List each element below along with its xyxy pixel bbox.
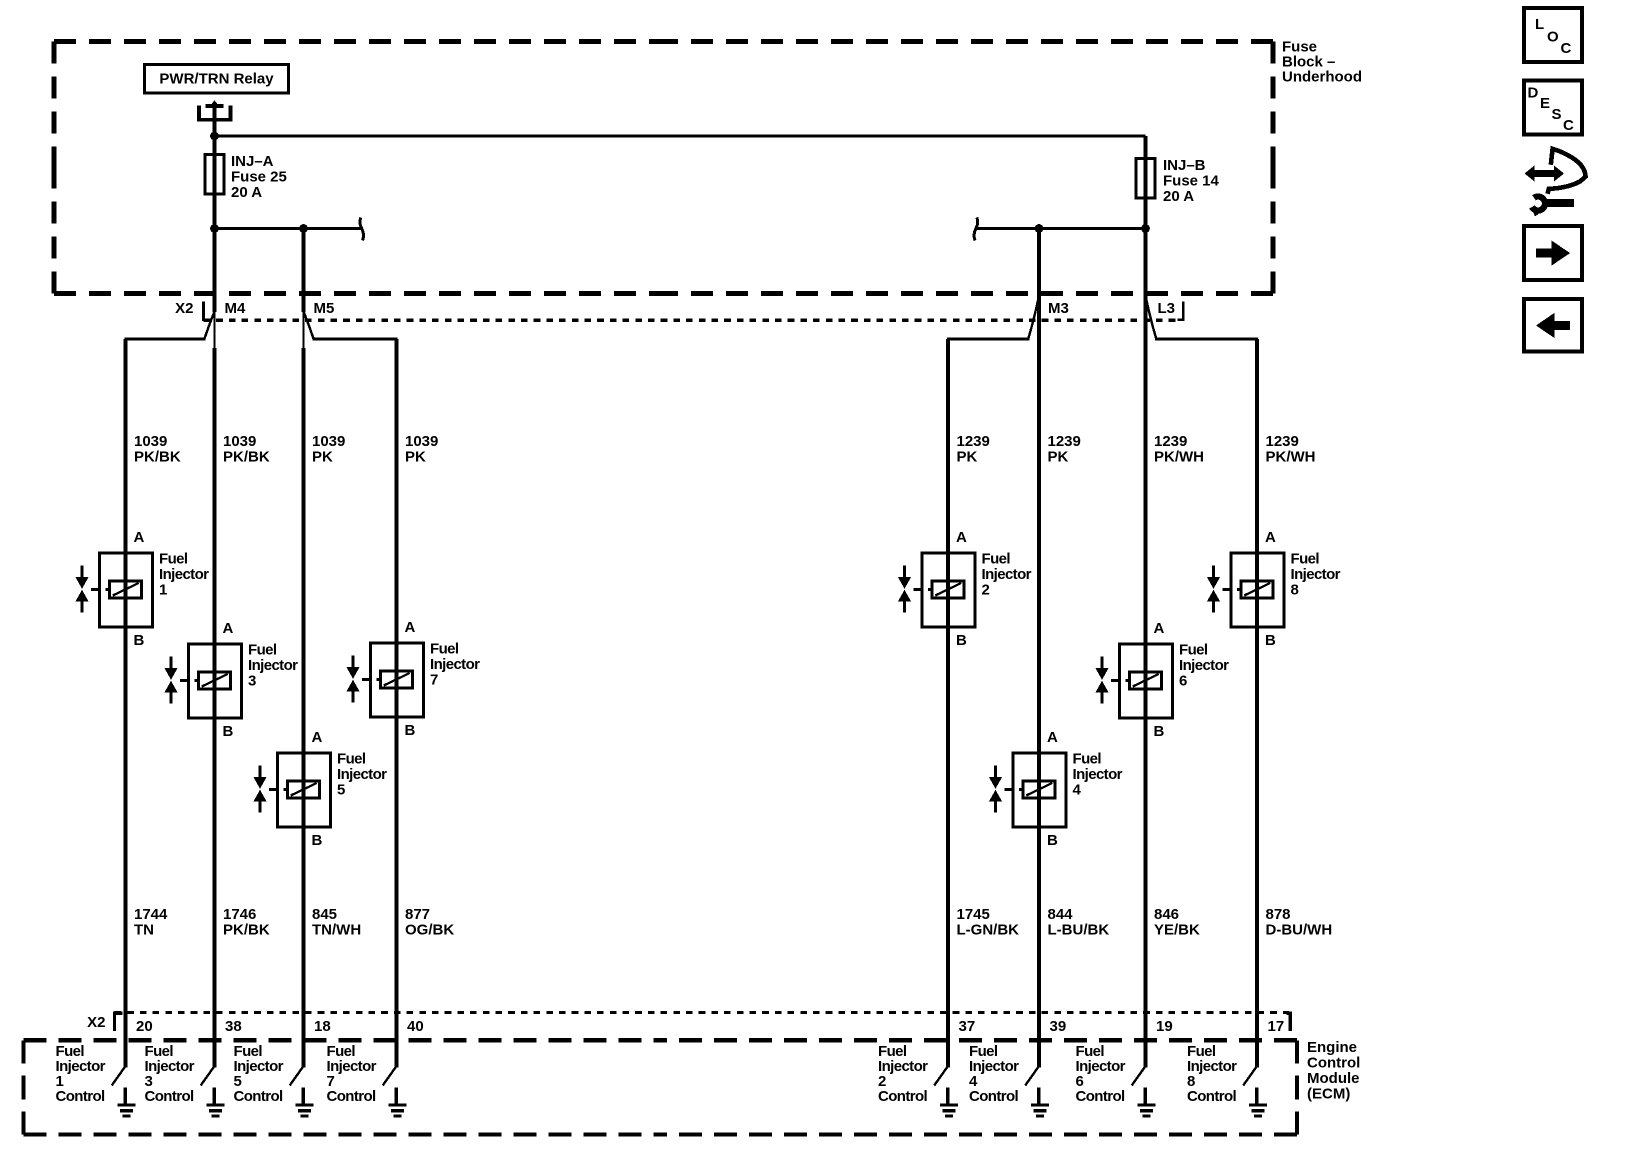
svg-text:B: B (223, 723, 234, 740)
svg-text:B: B (405, 722, 416, 739)
svg-text:L3: L3 (1158, 300, 1176, 317)
svg-text:846: 846 (1154, 906, 1179, 923)
svg-text:8: 8 (1291, 581, 1299, 598)
svg-text:B: B (1154, 723, 1165, 740)
svg-text:Injector: Injector (982, 566, 1032, 583)
svg-text:INJ–A: INJ–A (231, 153, 274, 170)
svg-text:1039: 1039 (312, 433, 345, 450)
svg-text:A: A (956, 529, 967, 546)
svg-text:2: 2 (982, 581, 990, 598)
svg-text:A: A (1265, 529, 1276, 546)
svg-text:C: C (1561, 40, 1572, 57)
svg-text:Fuel: Fuel (982, 550, 1011, 567)
svg-text:1039: 1039 (405, 433, 438, 450)
svg-text:Fuel: Fuel (1073, 750, 1102, 767)
svg-text:L: L (1535, 16, 1544, 33)
svg-text:M4: M4 (225, 300, 246, 317)
svg-text:Control: Control (878, 1088, 928, 1105)
svg-text:S: S (1552, 106, 1562, 123)
svg-text:Fuel: Fuel (1179, 641, 1208, 658)
svg-text:PK/BK: PK/BK (134, 449, 181, 466)
svg-text:20 A: 20 A (231, 184, 262, 201)
svg-text:Fuel: Fuel (159, 550, 188, 567)
svg-text:3: 3 (248, 672, 256, 689)
svg-text:877: 877 (405, 906, 430, 923)
svg-text:PK: PK (312, 449, 333, 466)
svg-text:Underhood: Underhood (1282, 69, 1362, 86)
svg-text:A: A (223, 620, 234, 637)
svg-text:D-BU/WH: D-BU/WH (1266, 922, 1333, 939)
svg-text:A: A (134, 529, 145, 546)
svg-text:TN/WH: TN/WH (312, 922, 361, 939)
svg-text:Control: Control (1076, 1088, 1126, 1105)
svg-text:1239: 1239 (1048, 433, 1081, 450)
svg-text:OG/BK: OG/BK (405, 922, 454, 939)
svg-text:Fuel: Fuel (1291, 550, 1320, 567)
svg-text:1239: 1239 (957, 433, 990, 450)
svg-text:Control: Control (1307, 1054, 1360, 1071)
svg-text:A: A (312, 729, 323, 746)
svg-text:4: 4 (1073, 781, 1082, 798)
svg-text:Control: Control (234, 1088, 284, 1105)
svg-text:Fuel: Fuel (337, 750, 366, 767)
svg-text:(ECM): (ECM) (1307, 1085, 1350, 1102)
svg-text:PK: PK (1048, 449, 1069, 466)
svg-text:Injector: Injector (1073, 766, 1123, 783)
svg-text:40: 40 (407, 1018, 424, 1035)
svg-text:1746: 1746 (223, 906, 256, 923)
svg-text:L-GN/BK: L-GN/BK (957, 922, 1020, 939)
svg-text:Control: Control (327, 1088, 377, 1105)
svg-text:878: 878 (1266, 906, 1291, 923)
svg-text:Injector: Injector (159, 566, 209, 583)
svg-text:X2: X2 (175, 300, 193, 317)
svg-text:M5: M5 (314, 300, 335, 317)
svg-text:INJ–B: INJ–B (1163, 157, 1206, 174)
svg-text:5: 5 (337, 781, 345, 798)
svg-text:L-BU/BK: L-BU/BK (1048, 922, 1110, 939)
svg-text:Engine: Engine (1307, 1039, 1357, 1056)
svg-text:Control: Control (969, 1088, 1019, 1105)
svg-text:Control: Control (145, 1088, 195, 1105)
svg-text:PK/WH: PK/WH (1154, 449, 1204, 466)
svg-text:X2: X2 (87, 1014, 105, 1031)
svg-text:1039: 1039 (134, 433, 167, 450)
svg-text:TN: TN (134, 922, 154, 939)
svg-text:1: 1 (159, 581, 167, 598)
svg-text:PK/BK: PK/BK (223, 922, 270, 939)
svg-text:E: E (1540, 95, 1550, 112)
svg-text:Fuse 14: Fuse 14 (1163, 172, 1220, 189)
svg-text:7: 7 (430, 671, 438, 688)
svg-text:845: 845 (312, 906, 337, 923)
svg-text:20: 20 (136, 1018, 153, 1035)
svg-text:1744: 1744 (134, 906, 168, 923)
svg-text:18: 18 (314, 1018, 331, 1035)
svg-text:Injector: Injector (1179, 657, 1229, 674)
svg-text:Control: Control (1187, 1088, 1237, 1105)
svg-text:1239: 1239 (1154, 433, 1187, 450)
svg-text:YE/BK: YE/BK (1154, 922, 1200, 939)
svg-text:PK: PK (405, 449, 426, 466)
svg-text:39: 39 (1050, 1018, 1067, 1035)
svg-text:844: 844 (1048, 906, 1074, 923)
svg-text:1239: 1239 (1266, 433, 1299, 450)
svg-text:PWR/TRN Relay: PWR/TRN Relay (159, 71, 274, 88)
svg-text:1039: 1039 (223, 433, 256, 450)
svg-text:B: B (956, 632, 967, 649)
svg-text:20 A: 20 A (1163, 188, 1194, 205)
svg-text:38: 38 (225, 1018, 242, 1035)
svg-text:C: C (1563, 117, 1574, 134)
svg-text:B: B (1047, 832, 1058, 849)
svg-text:17: 17 (1268, 1018, 1285, 1035)
svg-text:Injector: Injector (337, 766, 387, 783)
svg-text:Fuse 25: Fuse 25 (231, 168, 287, 185)
svg-text:PK: PK (957, 449, 978, 466)
svg-text:B: B (1265, 632, 1276, 649)
svg-text:Module: Module (1307, 1070, 1360, 1087)
svg-text:PK/BK: PK/BK (223, 449, 270, 466)
svg-text:D: D (1528, 84, 1539, 101)
svg-text:Fuel: Fuel (430, 640, 459, 657)
svg-text:A: A (1154, 620, 1165, 637)
svg-text:37: 37 (959, 1018, 976, 1035)
svg-text:19: 19 (1156, 1018, 1173, 1035)
svg-text:A: A (405, 619, 416, 636)
svg-text:6: 6 (1179, 672, 1187, 689)
svg-text:Control: Control (56, 1088, 106, 1105)
svg-text:O: O (1547, 28, 1559, 45)
svg-text:Injector: Injector (1291, 566, 1341, 583)
svg-text:B: B (312, 832, 323, 849)
svg-text:Fuel: Fuel (248, 641, 277, 658)
svg-text:1745: 1745 (957, 906, 990, 923)
svg-text:B: B (134, 632, 145, 649)
svg-text:Injector: Injector (430, 656, 480, 673)
svg-text:A: A (1047, 729, 1058, 746)
svg-text:Injector: Injector (248, 657, 298, 674)
svg-text:M3: M3 (1048, 300, 1069, 317)
svg-text:PK/WH: PK/WH (1266, 449, 1316, 466)
